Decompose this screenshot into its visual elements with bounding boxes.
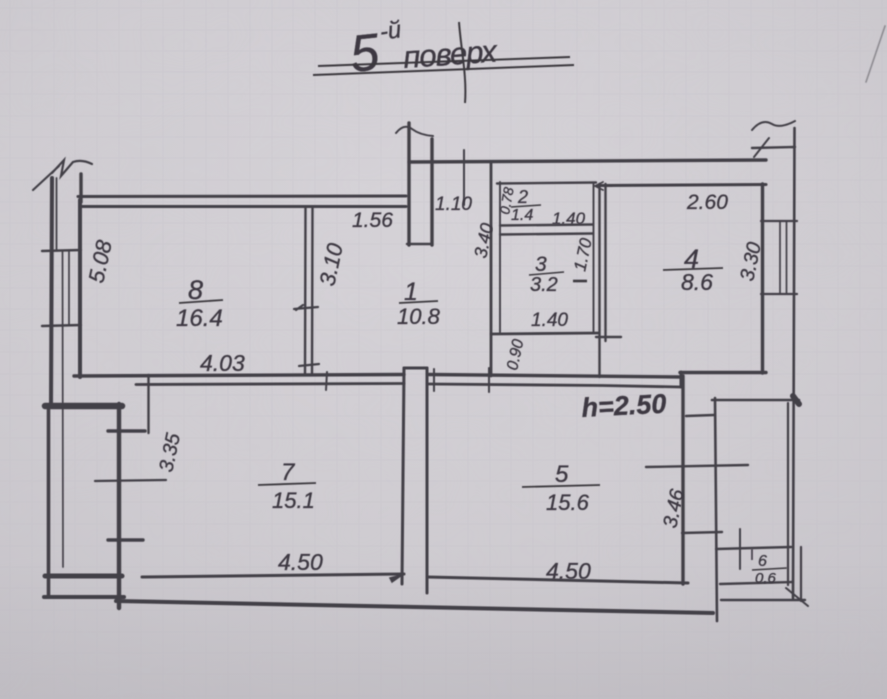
wall: lower-left balcony outer wall	[47, 406, 51, 597]
wall: room 3 bottom line	[491, 333, 599, 334]
tick: 1.10 dimension tick	[463, 150, 465, 205]
wall: block/room4 wall line a	[598, 184, 600, 377]
svg-text:4.50: 4.50	[278, 549, 323, 575]
wall: room 4 bottom wall	[680, 371, 766, 374]
room 6 top line	[716, 547, 791, 549]
svg-text:1.40: 1.40	[531, 310, 568, 331]
svg-text:3: 3	[535, 253, 547, 276]
wall: right balcony outer vertical lower	[800, 547, 802, 601]
wall: lower-left balcony top bar	[45, 403, 122, 410]
wall: lower-left balcony bottom bar 1	[45, 574, 122, 579]
tick: arrowhead at room 7 bottom wall right end	[390, 575, 402, 582]
pen stroke: top shaft squiggle	[396, 127, 433, 136]
tick: room 5 right wall step tick bottom	[682, 532, 722, 533]
tick: room 7 balcony door top sill	[108, 429, 145, 432]
room 6 label underline	[752, 568, 787, 570]
wall: room 4 top wall	[601, 185, 766, 186]
room 8 label underline	[179, 300, 223, 303]
room 3 label underline	[529, 272, 564, 275]
wall: room 8 left wall overshoot	[79, 174, 82, 202]
svg-text:4.50: 4.50	[546, 558, 591, 584]
tick: room 5 right wall step tick top	[686, 415, 714, 416]
svg-text:-й: -й	[378, 16, 403, 46]
tick: partition dimension tick lower	[299, 364, 319, 366]
svg-text:8.6: 8.6	[681, 269, 713, 295]
wall: room 4 right inner wall	[761, 184, 764, 373]
tick: room 7 balcony window sill	[108, 538, 143, 541]
wall: rooms 2/3 divider upper	[500, 225, 593, 226]
svg-text:1.10: 1.10	[435, 194, 472, 215]
wall: top outer wall from shaft to right corner	[409, 160, 766, 162]
wall: rooms 2/3 block left inner line	[499, 182, 501, 332]
wall: top shaft bottom cap	[407, 243, 432, 245]
room 2 label underline	[511, 205, 541, 207]
wall: upper-left balcony top hatch squiggle	[33, 160, 92, 190]
pen stroke: bottom right diagonal	[786, 588, 808, 606]
room 4 label underline	[663, 268, 723, 270]
window: room 4 window bottom cap	[761, 293, 797, 295]
wall: room 7 entry nook vertical	[147, 375, 149, 433]
wall: room 8 top wall lower line	[80, 205, 406, 208]
wall: lower-left balcony bottom bar 2	[44, 595, 124, 599]
wall: top shaft right vertical	[430, 139, 433, 245]
wall: right balcony top right corner blob	[793, 396, 799, 404]
wall: room 7 bottom inner wall	[142, 574, 404, 577]
tick: partition dimension tick upper	[294, 305, 318, 310]
wall: upper-left balcony outer wall inner line	[56, 178, 58, 250]
wall: room 5 bottom inner wall	[427, 577, 688, 583]
window: room 8 balcony window top cap	[42, 250, 81, 251]
wall: room 2 top line	[497, 183, 596, 184]
tick: arrow at block top right corner	[595, 182, 612, 190]
pen stroke: top right corner squiggle	[752, 121, 795, 157]
svg-text:15.1: 15.1	[272, 488, 315, 513]
svg-text:16.4: 16.4	[176, 305, 223, 332]
svg-text:0.6: 0.6	[755, 570, 777, 587]
wall: right balcony bottom line	[721, 599, 805, 601]
wall: partition room 8 / corridor 1	[305, 207, 313, 374]
pen stroke through title	[459, 22, 465, 103]
wall: partition column top cap	[404, 367, 427, 370]
window: room 4 window top cap	[761, 220, 797, 222]
room 7 label underline	[258, 483, 316, 485]
wall: right balcony top line	[712, 399, 799, 402]
tick: room 5 right wall long tick	[646, 465, 748, 467]
wall: rooms 2/3 divider lower	[500, 234, 593, 235]
svg-text:1.4: 1.4	[511, 207, 533, 224]
window: room 8 balcony glazing lines	[63, 251, 70, 567]
wall: rooms 2/3 block right inner line	[593, 184, 595, 333]
window: room 8 balcony window bottom cap	[42, 325, 81, 326]
svg-text:10.8: 10.8	[397, 304, 441, 329]
dash near 1.70	[573, 280, 587, 283]
svg-text:2: 2	[517, 187, 528, 207]
room 5 label underline	[522, 485, 600, 487]
room 6 bottom line	[720, 582, 793, 584]
title underline 1	[318, 57, 570, 66]
wall: rooms 2/3 block left outer wall	[490, 163, 493, 376]
wall: corridor stub to room 4	[596, 336, 621, 338]
wall: partition column rooms 7/5 right line	[426, 368, 429, 593]
corridor 1 label underline	[399, 301, 438, 303]
wall: middle wall upper line right section	[429, 375, 681, 378]
svg-text:7: 7	[281, 459, 296, 486]
tick: small tick before room 6 label	[751, 549, 753, 560]
svg-text:h=2.50: h=2.50	[581, 389, 667, 423]
wall: room 8 top wall upper line	[78, 195, 406, 199]
wall: block/room4 wall line b	[604, 184, 606, 341]
svg-text:1.56: 1.56	[352, 209, 393, 232]
pen stroke: faint diagonal top right	[866, 26, 885, 82]
tick: middle wall tick at x489	[488, 368, 490, 392]
svg-text:1.40: 1.40	[552, 209, 586, 228]
wall: room 4 bottom connector	[680, 372, 683, 387]
svg-text:6: 6	[758, 553, 767, 570]
wall: right balcony inner vertical	[715, 398, 717, 621]
wall: middle wall lower line left section	[136, 384, 404, 385]
svg-text:5: 5	[555, 461, 569, 488]
door: room 7 balcony door leaf	[95, 480, 166, 481]
wall: middle wall lower line right section	[429, 384, 681, 387]
tick: middle wall tick at x434	[433, 369, 435, 391]
wall: top right corner stub	[752, 147, 795, 148]
wall: right balcony mid vertical	[787, 403, 789, 585]
wall: room 8 left wall	[78, 200, 82, 377]
svg-text:3.2: 3.2	[530, 274, 558, 296]
wall: middle wall upper line left section	[74, 375, 404, 377]
svg-text:15.6: 15.6	[546, 490, 590, 515]
svg-text:2.60: 2.60	[686, 191, 728, 214]
tick: middle wall tick at x327	[326, 372, 327, 390]
wall: upper-left balcony outer wall	[51, 178, 52, 405]
tick: room 6 dimension tick	[739, 529, 741, 569]
window: room 4 window glazing	[780, 221, 787, 294]
wall: bottom outer wall	[116, 601, 713, 613]
svg-text:4.03: 4.03	[200, 350, 245, 376]
wall: right outer wall	[793, 128, 795, 598]
wall: partition column rooms 7/5 left line	[402, 368, 404, 584]
svg-text:8: 8	[188, 275, 203, 305]
wall: room 7 left wall	[117, 404, 121, 608]
wall: top shaft left vertical	[407, 123, 410, 245]
title underline 2	[313, 65, 574, 75]
wall: room 5 right wall	[681, 376, 684, 584]
